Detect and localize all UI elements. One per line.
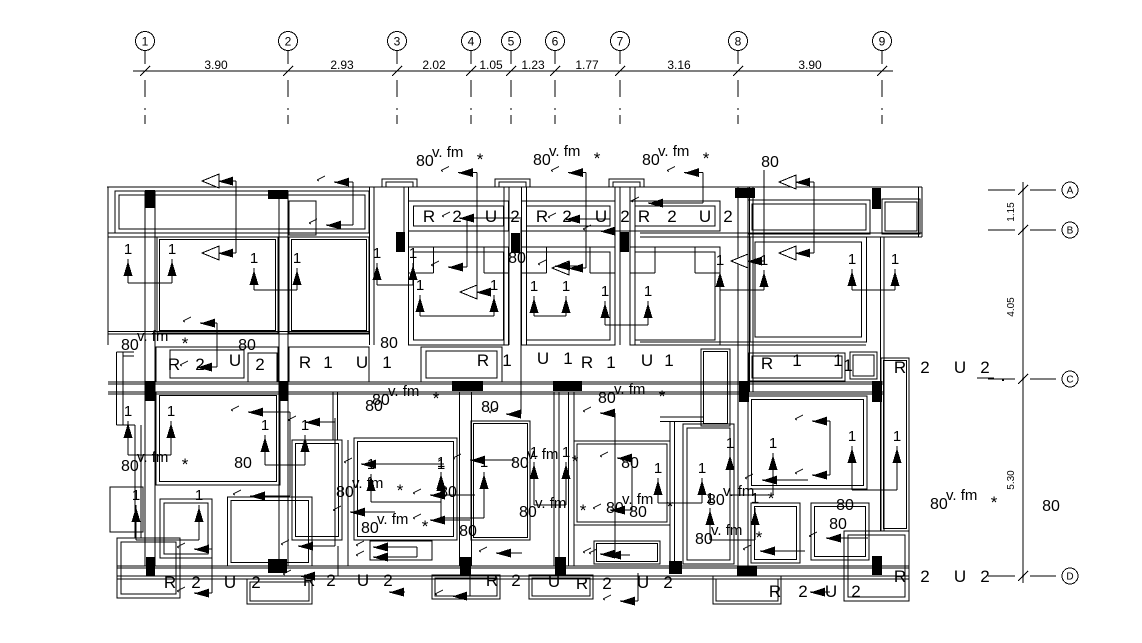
svg-text:2: 2 <box>383 571 392 590</box>
svg-text:U: U <box>954 358 966 377</box>
svg-text:1: 1 <box>706 490 714 507</box>
svg-text:5.30: 5.30 <box>1006 470 1017 490</box>
svg-text:1: 1 <box>716 252 724 269</box>
svg-text:2: 2 <box>191 573 200 592</box>
svg-text:1: 1 <box>382 353 391 372</box>
svg-text:80: 80 <box>761 154 779 171</box>
svg-text:5: 5 <box>508 35 515 49</box>
svg-text:v. fm: v. fm <box>711 522 742 539</box>
svg-text:2: 2 <box>920 358 929 377</box>
svg-text:*: * <box>182 334 189 353</box>
svg-text:v. fm: v. fm <box>549 143 580 160</box>
svg-text:3.90: 3.90 <box>204 58 228 72</box>
svg-text:9: 9 <box>879 35 886 49</box>
svg-text:1: 1 <box>891 251 899 268</box>
svg-text:4: 4 <box>468 35 475 49</box>
svg-text:v. fm: v. fm <box>388 383 419 400</box>
svg-text:2: 2 <box>602 574 611 593</box>
svg-text:80: 80 <box>930 496 948 513</box>
svg-text:7: 7 <box>617 35 624 49</box>
svg-text:1: 1 <box>250 250 258 267</box>
svg-text:*: * <box>756 528 763 547</box>
svg-text:2: 2 <box>511 571 520 590</box>
svg-text:1.15: 1.15 <box>1006 202 1017 222</box>
svg-text:1: 1 <box>261 417 269 434</box>
svg-text:80: 80 <box>1042 498 1060 515</box>
svg-text:80: 80 <box>519 504 537 521</box>
svg-text:1: 1 <box>848 428 856 445</box>
svg-text:*: * <box>703 149 710 168</box>
svg-text:R: R <box>761 354 773 373</box>
svg-text:*: * <box>768 489 775 508</box>
svg-text:2.02: 2.02 <box>422 58 446 72</box>
svg-text:U: U <box>537 349 549 368</box>
svg-text:80: 80 <box>336 484 354 501</box>
svg-text:2: 2 <box>980 358 989 377</box>
svg-text:*: * <box>572 452 579 471</box>
svg-text:2: 2 <box>798 582 807 601</box>
svg-text:U: U <box>357 571 369 590</box>
svg-text:*: * <box>182 455 189 474</box>
svg-text:1: 1 <box>142 35 149 49</box>
svg-text:v. fm: v. fm <box>137 328 168 345</box>
svg-text:1: 1 <box>490 277 498 294</box>
svg-text:1: 1 <box>502 351 511 370</box>
svg-text:2: 2 <box>620 207 629 226</box>
svg-text:80: 80 <box>121 458 139 475</box>
svg-text:1: 1 <box>437 454 445 471</box>
svg-text:v. fm: v. fm <box>137 449 168 466</box>
svg-text:2: 2 <box>326 571 335 590</box>
svg-text:1: 1 <box>293 250 301 267</box>
svg-text:80: 80 <box>508 250 526 267</box>
svg-text:U: U <box>224 573 236 592</box>
svg-text:1: 1 <box>769 435 777 452</box>
svg-text:1: 1 <box>480 454 488 471</box>
svg-text:R: R <box>638 207 650 226</box>
svg-text:1: 1 <box>644 283 652 300</box>
svg-text:1: 1 <box>367 456 375 473</box>
svg-text:1: 1 <box>167 403 175 420</box>
svg-text:80: 80 <box>598 390 616 407</box>
svg-text:2: 2 <box>251 573 260 592</box>
svg-text:1: 1 <box>124 241 132 258</box>
svg-text:6: 6 <box>552 35 559 49</box>
svg-text:R: R <box>576 574 588 593</box>
svg-text:1: 1 <box>654 460 662 477</box>
svg-text:1: 1 <box>373 245 381 262</box>
svg-text:v. fm: v. fm <box>723 483 754 500</box>
svg-text:1: 1 <box>195 487 203 504</box>
svg-text:1: 1 <box>323 353 332 372</box>
svg-text:*: * <box>659 387 666 406</box>
svg-text:*: * <box>433 389 440 408</box>
svg-text:1: 1 <box>606 353 615 372</box>
svg-text:2: 2 <box>285 35 292 49</box>
svg-text:1: 1 <box>833 351 842 370</box>
svg-text:D: D <box>1066 572 1073 583</box>
svg-text:R: R <box>164 573 176 592</box>
svg-text:U: U <box>485 207 497 226</box>
svg-text:2: 2 <box>562 207 571 226</box>
svg-text:v. fm: v. fm <box>658 143 689 160</box>
svg-text:*: * <box>397 481 404 500</box>
svg-text:*: * <box>991 493 998 512</box>
svg-text:2: 2 <box>920 567 929 586</box>
svg-text:1: 1 <box>760 252 768 269</box>
svg-text:1: 1 <box>530 278 538 295</box>
svg-text:1: 1 <box>726 435 734 452</box>
svg-text:R: R <box>486 571 498 590</box>
svg-text:U: U <box>954 567 966 586</box>
svg-text:80: 80 <box>829 516 847 533</box>
svg-text:80: 80 <box>234 455 252 472</box>
svg-text:80: 80 <box>511 455 529 472</box>
svg-text:U: U <box>641 351 653 370</box>
svg-text:2: 2 <box>980 567 989 586</box>
svg-text:2: 2 <box>667 207 676 226</box>
svg-text:v. fm: v. fm <box>946 487 977 504</box>
svg-text:2: 2 <box>723 207 732 226</box>
svg-text:1: 1 <box>601 283 609 300</box>
svg-text:*: * <box>580 501 587 520</box>
svg-text:*: * <box>594 149 601 168</box>
svg-text:R: R <box>423 207 435 226</box>
svg-text:R: R <box>894 358 906 377</box>
svg-text:80: 80 <box>365 398 383 415</box>
svg-text:1: 1 <box>664 351 673 370</box>
svg-text:R: R <box>536 207 548 226</box>
svg-text:1: 1 <box>132 487 140 504</box>
svg-text:*: * <box>477 150 484 169</box>
svg-text:80: 80 <box>836 497 854 514</box>
svg-text:2: 2 <box>851 582 860 601</box>
svg-text:B: B <box>1067 226 1074 237</box>
svg-text:80: 80 <box>121 337 139 354</box>
svg-text:v. fm: v. fm <box>614 381 645 398</box>
svg-text:R: R <box>299 353 311 372</box>
svg-text:1: 1 <box>416 277 424 294</box>
svg-text:1: 1 <box>530 444 538 461</box>
svg-text:1: 1 <box>168 241 176 258</box>
svg-text:1.23: 1.23 <box>521 58 545 72</box>
svg-text:1: 1 <box>751 490 759 507</box>
svg-text:R: R <box>168 355 180 374</box>
svg-text:1: 1 <box>848 251 856 268</box>
svg-text:80: 80 <box>533 152 551 169</box>
svg-text:1: 1 <box>893 428 901 445</box>
svg-text:1: 1 <box>562 444 570 461</box>
svg-text:1.77: 1.77 <box>575 58 599 72</box>
svg-text:8: 8 <box>735 35 742 49</box>
svg-text:R: R <box>581 353 593 372</box>
svg-text:A: A <box>1067 186 1074 197</box>
svg-text:1: 1 <box>698 460 706 477</box>
svg-text:1: 1 <box>562 278 570 295</box>
svg-text:R: R <box>894 567 906 586</box>
svg-text:3.16: 3.16 <box>667 58 691 72</box>
svg-text:U: U <box>637 573 649 592</box>
svg-text:3: 3 <box>394 35 401 49</box>
svg-text:2.93: 2.93 <box>330 58 354 72</box>
svg-text:*: * <box>422 517 429 536</box>
svg-text:1: 1 <box>563 349 572 368</box>
svg-text:2: 2 <box>255 355 264 374</box>
svg-text:v. fm: v. fm <box>432 144 463 161</box>
svg-text:3.90: 3.90 <box>798 58 822 72</box>
svg-text:80: 80 <box>416 153 434 170</box>
svg-text:80: 80 <box>481 399 499 416</box>
svg-text:80: 80 <box>380 335 398 352</box>
svg-text:1.05: 1.05 <box>479 58 503 72</box>
svg-text:1: 1 <box>843 356 852 375</box>
svg-text:1: 1 <box>409 245 417 262</box>
svg-text:2: 2 <box>663 573 672 592</box>
svg-text:1: 1 <box>124 403 132 420</box>
svg-text:80: 80 <box>361 520 379 537</box>
svg-text:U: U <box>356 353 368 372</box>
svg-text:1: 1 <box>792 351 801 370</box>
svg-text:2: 2 <box>195 355 204 374</box>
svg-text:U: U <box>699 207 711 226</box>
svg-text:R: R <box>477 351 489 370</box>
svg-text:80: 80 <box>642 152 660 169</box>
svg-text:v. fm: v. fm <box>377 511 408 528</box>
svg-text:C: C <box>1066 375 1073 386</box>
svg-text:4.05: 4.05 <box>1006 297 1017 317</box>
svg-text:80: 80 <box>459 523 477 540</box>
svg-text:1: 1 <box>301 417 309 434</box>
svg-text:v. fm: v. fm <box>535 495 566 512</box>
svg-text:2: 2 <box>452 207 461 226</box>
svg-text:80: 80 <box>238 337 256 354</box>
svg-text:2: 2 <box>510 207 519 226</box>
svg-text:*: * <box>667 497 674 516</box>
svg-text:U: U <box>595 207 607 226</box>
svg-text:R: R <box>769 582 781 601</box>
svg-text:U: U <box>548 572 560 591</box>
